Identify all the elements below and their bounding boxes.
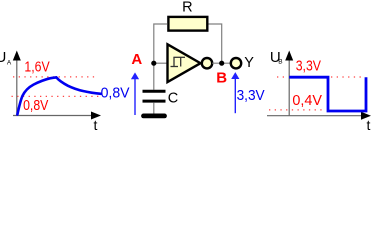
wire: capacitor to ground [153,103,155,114]
horizontal axis (left graph) [13,112,101,120]
svg-text:R: R [182,0,192,16]
svg-text:C: C [168,91,178,107]
svg-text:0,4V: 0,4V [292,93,322,109]
svg-text:B: B [216,70,227,87]
axis label U_A [0,49,12,66]
svg-text:3,3V: 3,3V [237,87,265,104]
svg-text:0,8V: 0,8V [23,97,49,113]
node A junction dot [151,61,156,66]
wire: bubble to Y terminal [212,62,231,64]
blue arrow U_A at node A [131,72,139,115]
svg-text:A: A [7,60,12,67]
capacitor voltage curve (charge then decay) [17,77,101,114]
vertical axis (left graph) [13,51,21,116]
node B junction dot [219,61,224,66]
output terminal Y circle [231,58,241,68]
ground [144,114,165,119]
dotted threshold line 0,8V [12,95,101,97]
blue arrow at node B [231,72,239,113]
wire: node A to inverter input [154,62,168,64]
svg-text:t: t [94,117,98,131]
vertical axis (right graph) [285,51,293,116]
dotted line 3,3V (left segment) [277,76,288,78]
op-amp / Schmitt inverter triangle [168,44,201,82]
svg-text:3,3V: 3,3V [296,57,322,73]
svg-text:1,6V: 1,6V [24,58,50,74]
svg-text:t: t [367,117,371,131]
dotted line 0,4V [269,109,325,111]
svg-text:0,8V: 0,8V [101,85,130,101]
wire: resistor right down to node B [209,24,222,63]
inverter output bubble [202,58,212,68]
wire: resistor left to node A vertical [154,24,167,90]
dotted line 3,3V (right segment) [331,76,365,78]
output square wave [289,77,366,111]
svg-text:B: B [278,59,282,66]
hysteresis symbol inside gate [171,57,186,66]
capacitor C plates [143,91,166,101]
horizontal axis (right graph) [267,112,371,120]
dotted threshold line 1,6V [13,76,95,78]
axis label U_B [270,49,283,66]
svg-text:U: U [0,49,6,66]
resistor R body [168,17,207,31]
svg-text:A: A [131,51,142,68]
svg-text:Y: Y [244,55,254,71]
